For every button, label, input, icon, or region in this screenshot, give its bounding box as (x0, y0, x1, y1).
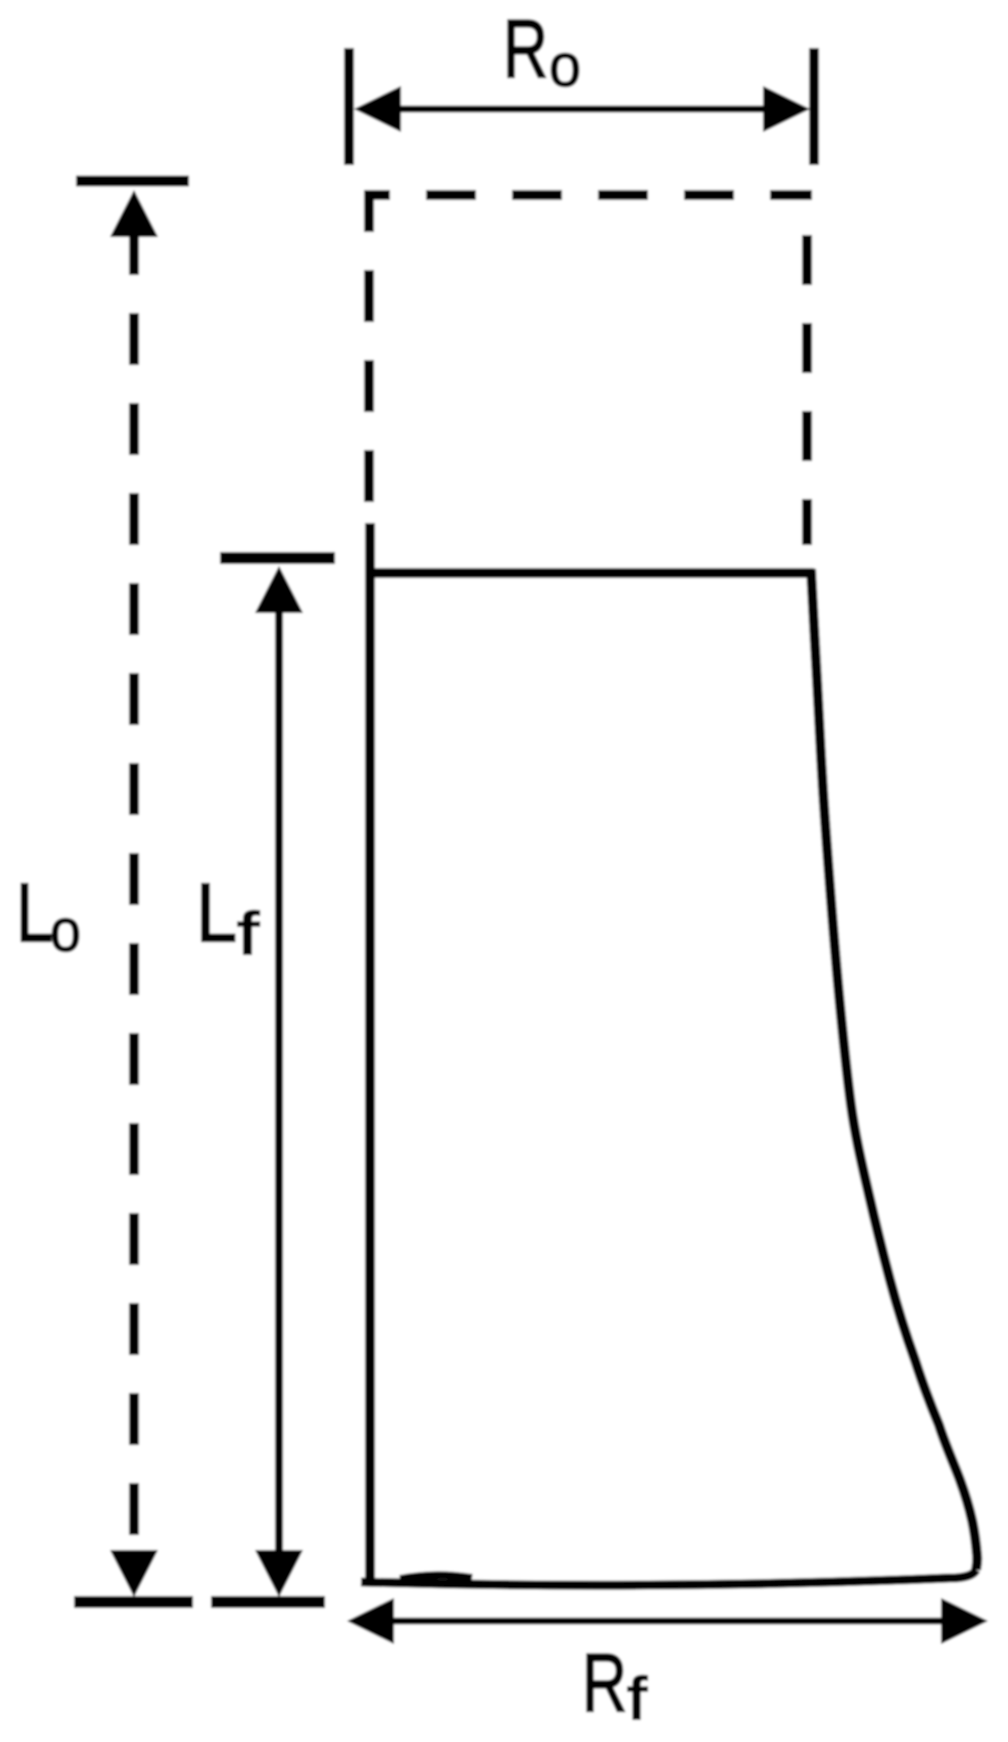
dimension L_o: bottom arrowhead (110, 1550, 158, 1597)
dimension R_o: left arrowhead (354, 86, 401, 132)
label L_f (196, 866, 259, 967)
dimension L_o: dashed stem (129, 237, 139, 1555)
dashed original outline: top edge (364, 190, 812, 200)
label L_o (16, 866, 81, 964)
deformed specimen outline: top edge (365, 568, 814, 578)
dimension L_f: top arrowhead (255, 566, 303, 613)
dimension L_f: bottom arrowhead (255, 1550, 303, 1597)
svg-text:f: f (627, 1665, 647, 1732)
label R_o (503, 2, 581, 99)
dimension L_f: stem (275, 600, 283, 1555)
deformed specimen outline: bottom edge (361, 1570, 976, 1585)
label R_f (582, 1636, 647, 1732)
svg-text:R: R (582, 1636, 627, 1729)
svg-text:R: R (503, 2, 548, 95)
dimension R_f: right arrowhead (941, 1598, 988, 1644)
svg-text:o: o (50, 897, 81, 964)
dimension R_o: arrow line (380, 106, 790, 113)
deformed specimen outline: right barreled edge (811, 569, 977, 1570)
dashed original outline: left edge (364, 190, 374, 522)
dashed original outline: right edge (802, 235, 812, 545)
dimension R_o: right arrowhead (763, 86, 810, 132)
dimension R_o: left extension tick (344, 48, 354, 165)
dimension R_f: left arrowhead (347, 1598, 394, 1644)
dimension L_o: top extension tick (76, 176, 189, 187)
dimension L_f: top extension tick (220, 552, 335, 564)
dimension L_f: bottom extension tick (211, 1596, 325, 1608)
dimension L_o: bottom extension tick (74, 1596, 193, 1608)
dimension R_o: right extension tick (809, 48, 819, 165)
svg-text:f: f (237, 900, 259, 967)
svg-text:o: o (549, 32, 581, 99)
deformed specimen outline: left edge (365, 523, 375, 1584)
svg-text:L: L (196, 866, 237, 959)
dimension L_o: top arrowhead (110, 190, 158, 237)
deformed specimen outline: bottom edge thickening (400, 1575, 472, 1579)
svg-text:L: L (16, 866, 53, 959)
dimension R_f: arrow line (375, 1618, 960, 1625)
